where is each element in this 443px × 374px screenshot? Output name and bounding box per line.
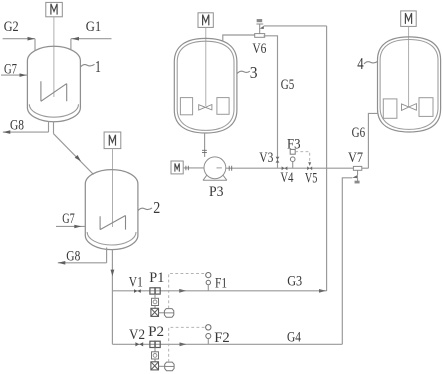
svg-text:F3: F3 — [287, 137, 301, 153]
G4 pipe — [112, 343, 342, 345]
valve V4 on discharge pipe — [282, 166, 285, 170]
agitator shaft tank 3 — [205, 27, 207, 106]
vessel 1 inner dish line — [29, 104, 78, 117]
pump P3 casing circle — [204, 157, 226, 179]
dosing pump P2 head (two squares) — [150, 341, 155, 347]
tank3 top nozzle to V6 — [223, 35, 255, 42]
svg-text:V7: V7 — [348, 150, 363, 166]
svg-text:G1: G1 — [86, 19, 102, 35]
vessel 1 outline — [27, 46, 80, 122]
svg-text:P2: P2 — [148, 324, 164, 340]
svg-text:4: 4 — [357, 54, 363, 73]
agitator paddle tank 1 — [41, 81, 67, 101]
tank2 bottom outlet riser down to dosing lines — [111, 250, 113, 345]
svg-text:1: 1 — [95, 57, 101, 76]
tank2 G8 outlet stub — [106, 248, 108, 263]
G2 inlet stub — [34, 39, 36, 51]
G3 pipe — [112, 290, 326, 292]
agitator shaft tank 1 — [53, 17, 55, 97]
P1 drive box — [154, 294, 156, 298]
label 2 with leader tilde — [138, 208, 152, 211]
flow sensor F3: square and circle — [290, 149, 295, 154]
recirculation line from V6 flange to V3 riser — [264, 36, 278, 168]
svg-text:2: 2 — [153, 198, 160, 217]
V7 outlet to G4 riser — [342, 178, 352, 344]
svg-text:V3: V3 — [259, 150, 273, 166]
baffle right tank 4 — [419, 98, 433, 117]
valve V2 — [135, 342, 139, 346]
P2 controller (octagon) — [165, 362, 174, 371]
P1 controller link — [159, 312, 165, 314]
P1 controller (octagon) — [164, 309, 173, 318]
control signal dashed row2 — [169, 327, 206, 362]
pipe from V7 flange to G6 riser — [362, 167, 369, 169]
svg-text:V2: V2 — [129, 327, 145, 343]
svg-text:V4: V4 — [280, 170, 293, 186]
motor box M of tank 2 — [104, 132, 121, 149]
coupling on tank3 outlet — [202, 150, 207, 152]
valve V6 flange on tank3 — [255, 34, 265, 38]
F3 to V5 control signal (dashed) — [295, 152, 310, 165]
baffle left tank 4 — [383, 99, 397, 118]
transfer line tank1 to tank2 with arrow — [54, 134, 94, 175]
pump motor shaft — [183, 167, 204, 169]
svg-text:G8: G8 — [10, 118, 24, 134]
baffle left tank 3 — [180, 98, 192, 115]
vessel 2 inner dish line — [87, 232, 136, 245]
svg-text:V5: V5 — [305, 171, 318, 187]
G6 riser up to tank 4 — [368, 113, 377, 168]
valve V7 flange — [353, 166, 361, 170]
dosing pump P1 head (two squares) — [150, 288, 155, 294]
vessel 2 outline — [85, 170, 138, 250]
vessel 4 inner wall — [380, 40, 438, 130]
svg-text:G3: G3 — [287, 274, 302, 290]
P2 drive box — [154, 348, 156, 352]
G5 riser (vertical) — [326, 26, 328, 291]
pump motor box M — [171, 161, 183, 174]
P2 controller link — [159, 365, 165, 367]
flow arrow row 1 — [179, 289, 186, 293]
P2 motor box with cross — [154, 359, 156, 362]
G7 feed arrow tank2 — [56, 225, 85, 227]
arrow at G3 right end — [319, 289, 326, 293]
svg-text:G5: G5 — [281, 77, 295, 93]
V7 stem down — [357, 170, 359, 175]
agitator shaft tank 2 — [112, 149, 114, 227]
valve V6 stem and handwheel — [256, 24, 263, 34]
G1 feed line with arrow — [71, 38, 112, 40]
svg-text:G2: G2 — [4, 19, 19, 35]
svg-text:G6: G6 — [352, 125, 366, 141]
down arrow on tank2 outlet — [111, 270, 115, 277]
motor box M of tank 1 — [46, 2, 63, 16]
pump discharge pipe to V7 — [226, 167, 354, 169]
flow arrow row 2 — [180, 342, 187, 346]
baffle right tank 3 — [217, 98, 229, 115]
vessel 3 outer wall — [174, 38, 237, 133]
impeller tank 3 — [199, 105, 212, 111]
P1 motor box with cross — [154, 306, 156, 309]
motor box M of tank 3 — [198, 13, 213, 28]
svg-text:V1: V1 — [129, 274, 143, 290]
V7 valve body — [352, 175, 357, 178]
control signal dashed row1 — [169, 273, 206, 308]
label 4 with leader tilde — [364, 62, 378, 64]
svg-text:F1: F1 — [215, 275, 227, 291]
svg-text:G7: G7 — [62, 211, 75, 227]
agitator paddle tank 2 — [100, 216, 125, 230]
svg-text:F2: F2 — [214, 330, 230, 346]
pipe V6 to G5 riser — [264, 25, 327, 27]
pump base — [203, 175, 227, 180]
tank3 bottom outlet to pump — [204, 133, 206, 157]
svg-text:3: 3 — [250, 63, 258, 82]
G8 outlet line with arrow tank1 — [3, 131, 49, 133]
motor box M of tank 4 — [401, 11, 417, 27]
discharge coupling ticks — [229, 166, 232, 171]
valve V5 on discharge pipe — [307, 166, 310, 170]
svg-text:G4: G4 — [287, 329, 301, 345]
valve V1 — [134, 289, 137, 293]
agitator shaft tank 4 — [408, 26, 410, 106]
vessel 4 outer wall — [378, 37, 441, 132]
G1 inlet stub — [70, 39, 72, 50]
tank1 outlet pipe — [48, 121, 50, 132]
G8 outlet line with arrow tank2 — [58, 262, 107, 264]
flow meter F2 (two circles) — [206, 325, 211, 330]
V7 hand symbol — [357, 178, 359, 181]
label 3 with leader tilde — [237, 71, 250, 73]
svg-text:P1: P1 — [149, 270, 164, 286]
valve V6 body — [260, 26, 264, 29]
svg-text:P3: P3 — [209, 184, 224, 200]
label 1 with leader tilde — [81, 64, 95, 67]
valve V3 on riser — [276, 157, 280, 160]
pump impeller dash — [217, 167, 222, 169]
G7 feed arrow tank1 — [1, 74, 27, 76]
svg-text:V6: V6 — [252, 41, 266, 57]
G2 feed line with arrow — [3, 38, 35, 40]
shaft coupling ticks — [186, 166, 188, 171]
vessel 3 inner wall — [177, 41, 234, 130]
flow meter F1 (two circles) — [206, 273, 211, 278]
impeller tank 4 — [402, 104, 417, 111]
